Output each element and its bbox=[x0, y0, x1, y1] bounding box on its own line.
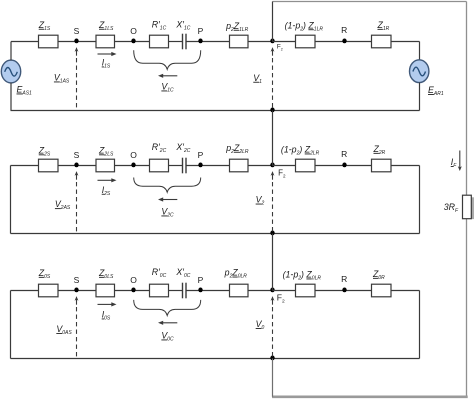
wire Z2S to Z2LS bbox=[58, 165, 96, 167]
capacitor X'1C bbox=[182, 34, 184, 50]
svg-text:F2: F2 bbox=[277, 43, 283, 51]
svg-text:Z0R: Z0R bbox=[372, 269, 385, 281]
node S row 2 bbox=[74, 163, 78, 168]
wire row 2 source to Z2S bbox=[11, 165, 39, 167]
node F2 row 2 bbox=[270, 163, 274, 168]
wire left vertical row 0 bbox=[10, 291, 12, 359]
resistor Z2S bbox=[39, 159, 59, 172]
svg-text:S: S bbox=[74, 26, 80, 36]
wire (1-p2)Z0LR to Z0R bbox=[315, 290, 372, 292]
resistor Z0LS bbox=[96, 284, 115, 297]
svg-text:3RF: 3RF bbox=[444, 202, 459, 214]
node F2 row 1 bbox=[270, 39, 274, 44]
voltage arrow V0 dashed bbox=[271, 296, 275, 301]
voltage arrow V1C bbox=[162, 75, 177, 77]
svg-text:V1AS: V1AS bbox=[54, 73, 70, 85]
wire F2 to (1-p2)Z1LR bbox=[273, 41, 296, 43]
resistor p2Z1LR bbox=[230, 35, 249, 48]
resistor (1-p2)Z0LR bbox=[296, 284, 316, 297]
resistor Z1R bbox=[372, 35, 392, 48]
capacitor X'2C bbox=[182, 158, 184, 174]
junction bottom row 0 bbox=[270, 356, 274, 361]
svg-text:V2C: V2C bbox=[161, 207, 174, 219]
resistor R'2C bbox=[150, 159, 169, 172]
svg-text:Z2R: Z2R bbox=[373, 144, 386, 156]
svg-text:p2Z2LR: p2Z2LR bbox=[225, 143, 249, 155]
wire R'2C to capacitor bbox=[169, 165, 183, 167]
svg-text:V1C: V1C bbox=[161, 82, 174, 94]
svg-text:X′0C: X′0C bbox=[175, 267, 190, 279]
current arrow I1S bbox=[98, 53, 113, 55]
wire p2Z0LR to F2 bbox=[248, 290, 273, 292]
node R row 2 bbox=[342, 163, 346, 168]
voltage arrow V1AS dashed bbox=[75, 47, 79, 52]
fault resistor 3RF shadow bbox=[471, 197, 474, 219]
wire Z1R to source EAR1 bbox=[391, 41, 420, 43]
junction bottom row 2 bbox=[270, 231, 274, 236]
wire F2 to (1-p2)Z0LR bbox=[273, 290, 296, 292]
voltage arrow V2 dashed bbox=[271, 171, 275, 176]
svg-text:IF: IF bbox=[451, 157, 457, 169]
svg-text:R: R bbox=[341, 25, 347, 35]
brace V0C span bbox=[134, 300, 201, 316]
svg-text:R′0C: R′0C bbox=[152, 267, 167, 279]
svg-text:R: R bbox=[341, 274, 347, 284]
svg-text:EAR1: EAR1 bbox=[428, 85, 444, 97]
wire p2Z2LR to F2 bbox=[248, 165, 273, 167]
svg-text:X′2C: X′2C bbox=[175, 142, 190, 154]
brace V1C span bbox=[134, 50, 201, 69]
fault boundary rectangle bottom border bbox=[272, 395, 468, 398]
svg-text:R′1C: R′1C bbox=[152, 19, 167, 31]
voltage arrow V1 dashed bbox=[271, 47, 275, 52]
wire row1 bottom to F2 row 2 bbox=[272, 111, 274, 166]
wire source EAS1 top bbox=[10, 42, 12, 61]
svg-text:V0AS: V0AS bbox=[56, 324, 72, 336]
wire top border to F2 row 1 bbox=[272, 2, 274, 42]
fault boundary rectangle right border bbox=[466, 2, 468, 397]
wire bottom row 1 bbox=[11, 110, 420, 112]
svg-text:V1: V1 bbox=[253, 73, 262, 85]
node P row 1 bbox=[198, 39, 202, 44]
svg-text:Z1LS: Z1LS bbox=[98, 20, 114, 32]
resistor p2Z2LR bbox=[230, 159, 249, 172]
svg-text:p2Z1LR: p2Z1LR bbox=[225, 21, 249, 33]
wire row 0 source to Z0S bbox=[11, 290, 39, 292]
node F2 row 0 bbox=[270, 288, 274, 293]
svg-text:I0S: I0S bbox=[102, 310, 111, 322]
wire F2 to (1-p2)Z2LR bbox=[273, 165, 296, 167]
svg-text:V0: V0 bbox=[256, 319, 265, 331]
svg-text:V2AS: V2AS bbox=[55, 199, 71, 211]
wire source EAR1 to bottom bbox=[419, 83, 421, 111]
current arrow I0S bbox=[98, 303, 113, 305]
resistor Z2LS bbox=[96, 159, 115, 172]
svg-text:I2S: I2S bbox=[102, 185, 111, 197]
node S row 0 bbox=[74, 288, 78, 293]
wire Z2R right loop row 2 bbox=[391, 165, 420, 167]
brace V2C span bbox=[134, 178, 201, 193]
wire row 1 source to Z1S bbox=[11, 41, 39, 43]
svg-text:S: S bbox=[74, 150, 80, 160]
resistor (1-p2)Z1LR bbox=[296, 35, 316, 48]
node S row 1 bbox=[74, 39, 78, 44]
resistor Z2R bbox=[372, 159, 392, 172]
wire row2 bottom to F2 row 3 bbox=[272, 234, 274, 291]
svg-text:V0C: V0C bbox=[161, 331, 174, 343]
wire Z0R right loop row 0 bbox=[391, 290, 420, 292]
resistor Z0R bbox=[372, 284, 392, 297]
svg-text:Z0S: Z0S bbox=[38, 268, 51, 280]
resistor p2Z0LR bbox=[230, 284, 249, 297]
svg-text:S: S bbox=[74, 275, 80, 285]
AC source EAS1 bbox=[1, 60, 20, 83]
svg-text:O: O bbox=[130, 150, 137, 160]
wire Z1S to Z1LS bbox=[58, 41, 96, 43]
svg-text:O: O bbox=[130, 26, 137, 36]
fault resistor 3RF bbox=[463, 195, 472, 219]
node R row 1 bbox=[342, 39, 346, 44]
svg-text:Z2LS: Z2LS bbox=[98, 145, 114, 157]
resistor Z1LS bbox=[96, 35, 115, 48]
resistor (1-p2)Z2LR bbox=[296, 159, 316, 172]
resistor Z1S bbox=[39, 35, 59, 48]
wire capacitor to p2Z0LR bbox=[186, 290, 230, 292]
resistor Z0S bbox=[39, 284, 59, 297]
wire source EAS1 bottom bbox=[10, 83, 12, 111]
svg-text:(1-p2) Z1LR: (1-p2) Z1LR bbox=[285, 20, 324, 32]
svg-text:R′2C: R′2C bbox=[152, 142, 167, 154]
wire R'1C to capacitor bbox=[169, 41, 183, 43]
node O row 2 bbox=[131, 163, 135, 168]
node R row 0 bbox=[342, 288, 346, 293]
svg-text:(1-p2) Z2LR: (1-p2) Z2LR bbox=[281, 145, 320, 157]
svg-text:P: P bbox=[198, 275, 204, 285]
svg-text:Z2S: Z2S bbox=[38, 145, 51, 157]
svg-text:X′1C: X′1C bbox=[175, 19, 190, 31]
wire Z1LS to R'1C bbox=[115, 41, 150, 43]
voltage arrow V0C bbox=[162, 322, 177, 324]
svg-text:I1S: I1S bbox=[102, 58, 111, 70]
svg-text:Z0LS: Z0LS bbox=[98, 268, 114, 280]
svg-text:Z1S: Z1S bbox=[38, 20, 51, 32]
resistor R'1C bbox=[150, 35, 169, 48]
wire p2Z1LR to F2 bbox=[248, 41, 273, 43]
node O row 1 bbox=[131, 39, 135, 44]
svg-text:O: O bbox=[130, 275, 137, 285]
wire (1-p2)Z1LR to Z1R bbox=[315, 41, 372, 43]
wire R'0C to capacitor bbox=[169, 290, 183, 292]
svg-text:P: P bbox=[198, 26, 204, 36]
svg-text:P: P bbox=[198, 150, 204, 160]
wire Z2LS to R'2C bbox=[115, 165, 150, 167]
wire bottom row 0 bbox=[11, 358, 420, 360]
voltage arrow V2AS dashed bbox=[75, 171, 79, 176]
fault current arrow IF bbox=[459, 151, 461, 168]
voltage arrow V0AS dashed bbox=[75, 296, 79, 301]
wire left vertical row 2 bbox=[10, 166, 12, 234]
wire (1-p2)Z2LR to Z2R bbox=[315, 165, 372, 167]
node O row 0 bbox=[131, 288, 135, 293]
AC source EAR1 bbox=[410, 60, 429, 83]
svg-text:V2: V2 bbox=[256, 195, 265, 207]
resistor R'0C bbox=[150, 284, 169, 297]
svg-text:Z1R: Z1R bbox=[377, 20, 390, 32]
junction bottom row 1 bbox=[270, 108, 274, 113]
wire row3 bottom to rectangle bottom bbox=[272, 359, 274, 397]
current arrow I2S bbox=[98, 179, 113, 181]
svg-text:R: R bbox=[341, 149, 347, 159]
wire bottom row 2 bbox=[11, 233, 420, 235]
wire capacitor to p2Z1LR bbox=[186, 41, 230, 43]
node P row 2 bbox=[198, 163, 202, 168]
wire Z0S to Z0LS bbox=[58, 290, 96, 292]
capacitor X'0C bbox=[182, 283, 184, 299]
voltage arrow V2C bbox=[162, 199, 177, 201]
wire Z0LS to R'0C bbox=[115, 290, 150, 292]
node P row 0 bbox=[198, 288, 202, 293]
svg-text:F2: F2 bbox=[277, 293, 285, 305]
svg-text:F2: F2 bbox=[278, 169, 286, 179]
wire capacitor to p2Z2LR bbox=[186, 165, 230, 167]
svg-text:EAS1: EAS1 bbox=[17, 85, 33, 97]
svg-text:(1-p2) Z0LR: (1-p2) Z0LR bbox=[283, 270, 322, 282]
fault boundary rectangle top border bbox=[273, 1, 467, 3]
svg-text:p2Z0LR: p2Z0LR bbox=[224, 268, 248, 280]
